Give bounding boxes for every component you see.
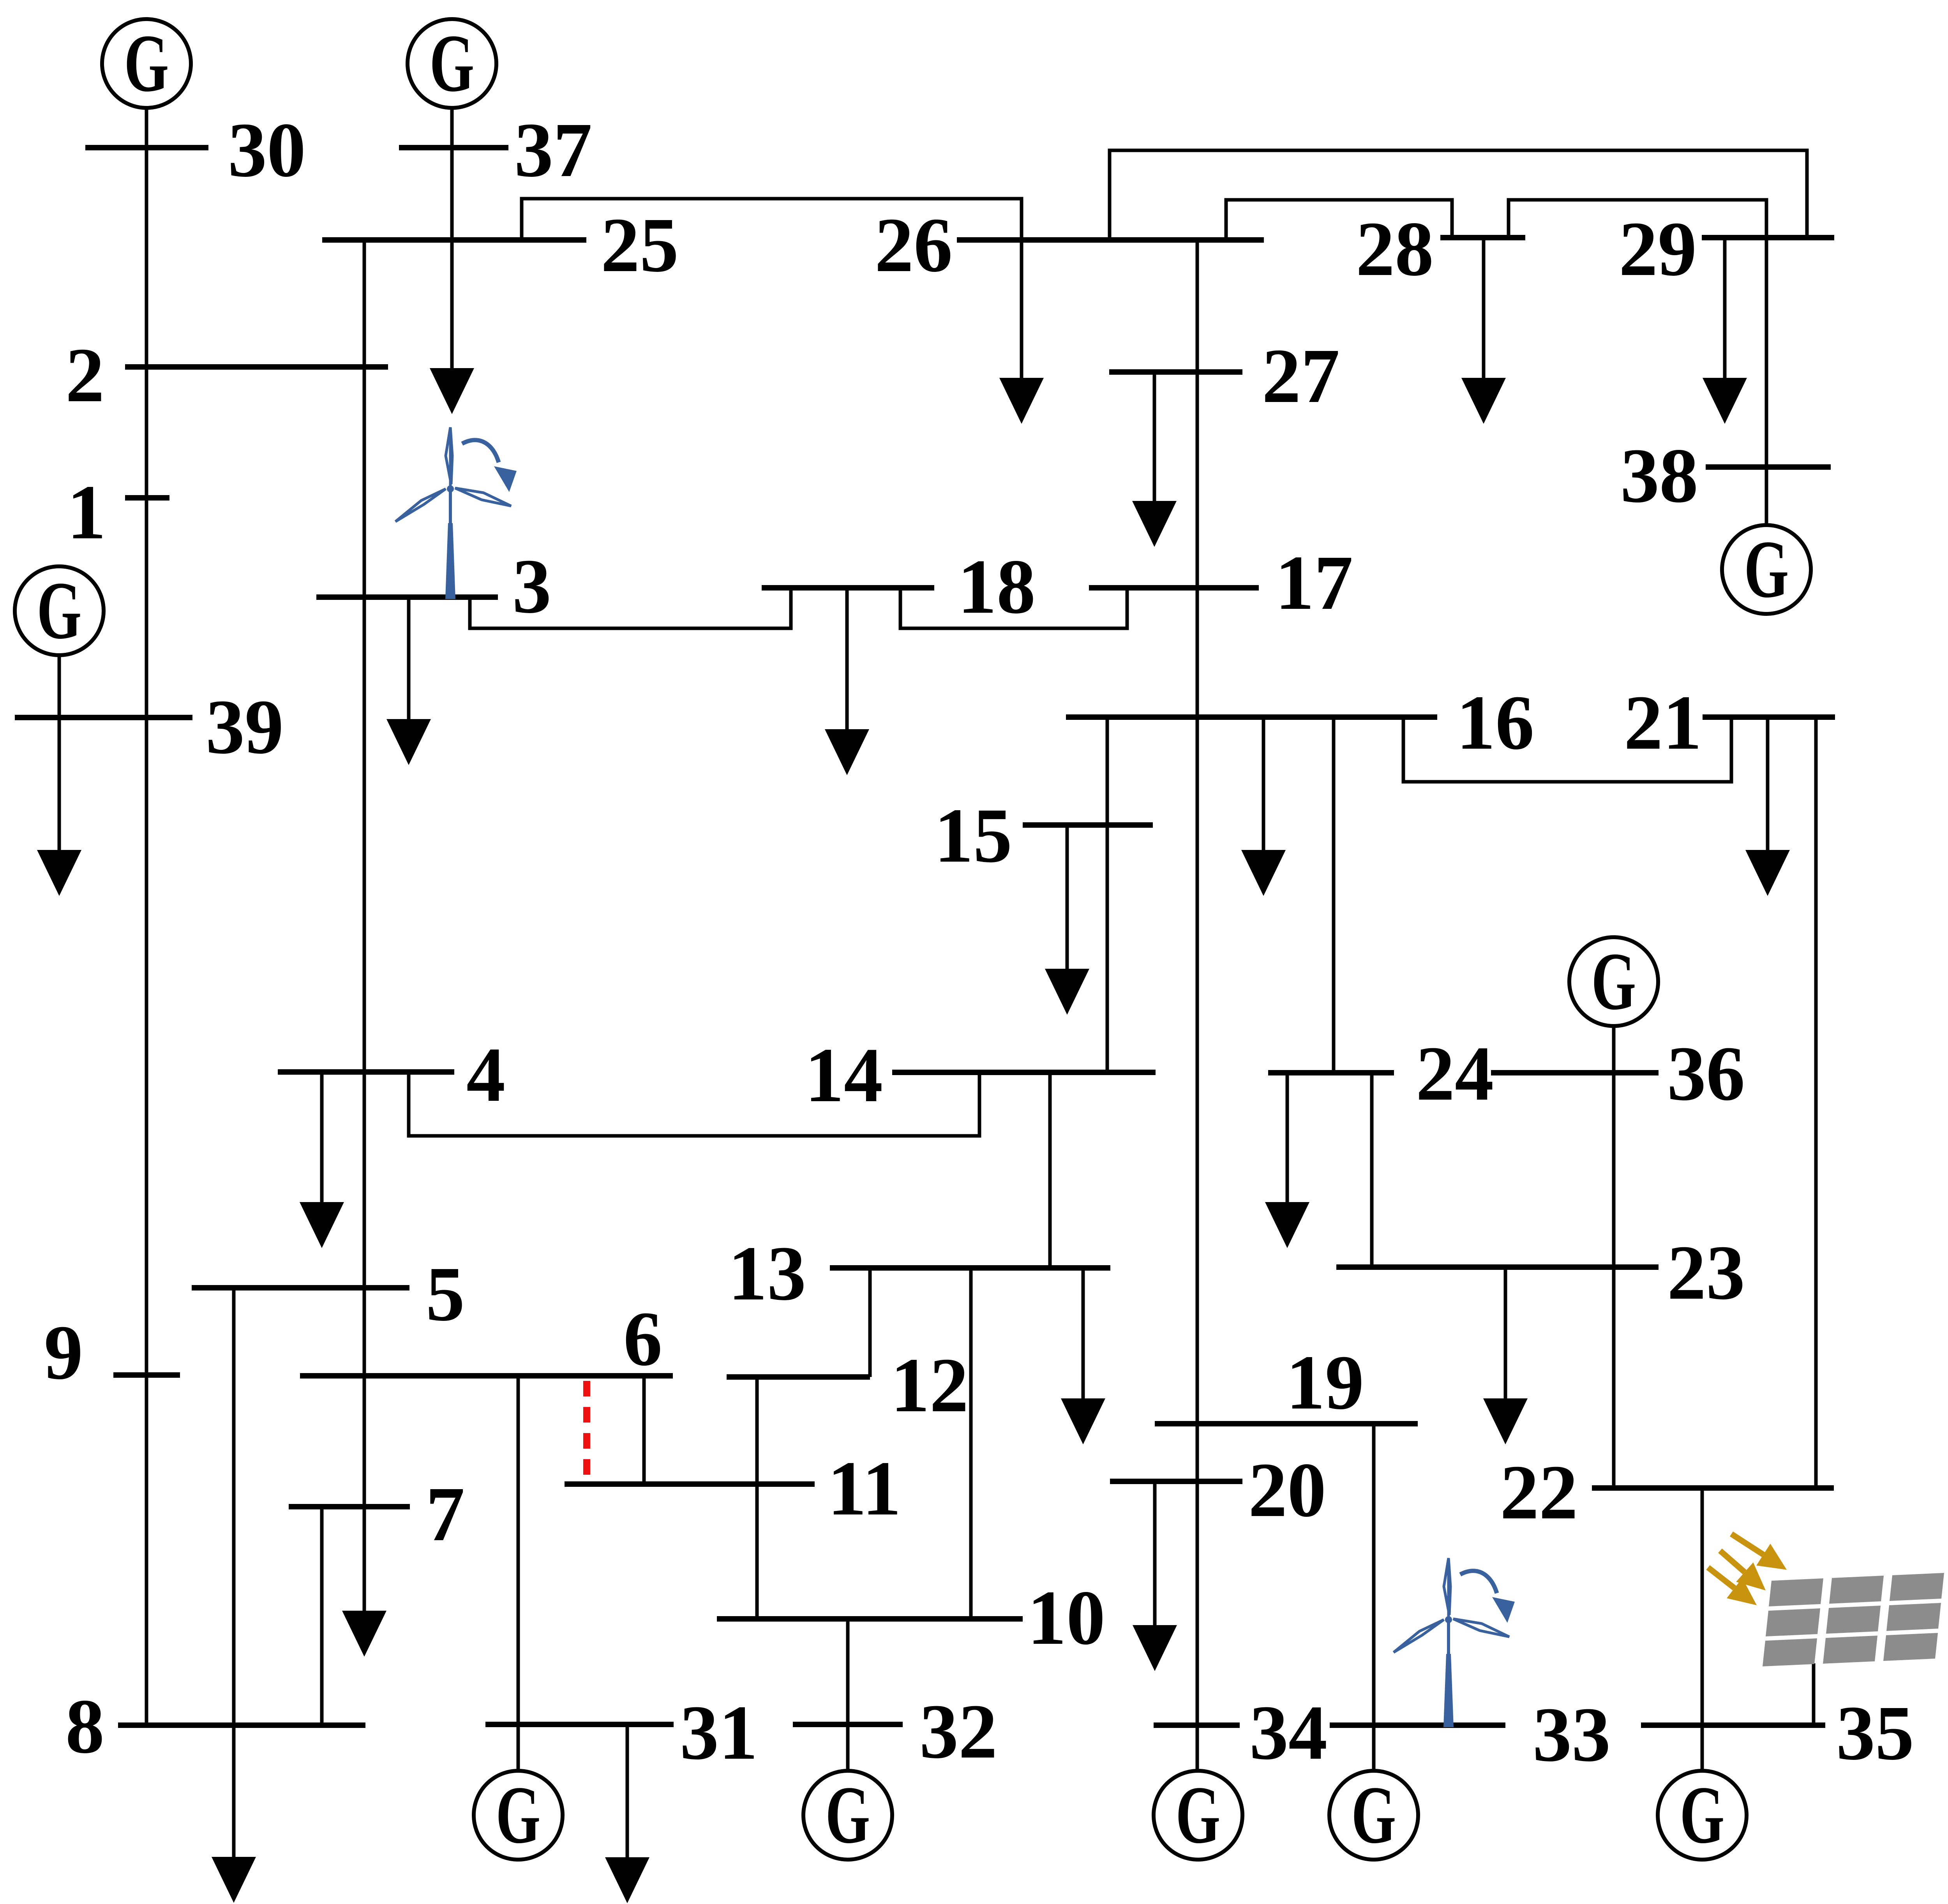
bus 4	[278, 1069, 454, 1075]
bus 24	[1268, 1070, 1394, 1075]
label bus 35	[1836, 1690, 1914, 1776]
label bus 24	[1416, 1031, 1494, 1117]
load arrow bus 23	[1483, 1267, 1528, 1444]
label bus 36	[1667, 1031, 1745, 1117]
svg-text:15: 15	[934, 793, 1012, 879]
wire 19-33-G33	[1372, 1424, 1376, 1771]
line 26-29	[1110, 150, 1807, 240]
label bus 15	[934, 793, 1012, 879]
load arrow bus 4	[300, 1072, 344, 1248]
svg-text:G: G	[826, 1770, 870, 1860]
label bus 28	[1356, 206, 1434, 292]
svg-text:G: G	[430, 18, 475, 109]
svg-text:29: 29	[1619, 206, 1697, 292]
svg-text:G: G	[1176, 1770, 1221, 1860]
line 18-17	[900, 588, 1127, 628]
bus 14	[892, 1070, 1156, 1075]
svg-text:17: 17	[1275, 540, 1353, 626]
svg-text:28: 28	[1356, 206, 1434, 292]
wire trunk 26-27-17-16-19-20-34-G34	[1196, 240, 1199, 1771]
svg-text:G: G	[1680, 1770, 1725, 1860]
svg-text:20: 20	[1248, 1447, 1326, 1533]
load arrow bus 26	[999, 199, 1044, 424]
label bus 33	[1533, 1692, 1611, 1778]
wire 29-38-G38	[1765, 238, 1768, 525]
generator G37	[408, 18, 496, 109]
svg-text:13: 13	[728, 1231, 806, 1317]
line 4-14	[409, 1072, 979, 1136]
load arrow bus 39	[37, 718, 81, 896]
svg-text:1: 1	[67, 469, 106, 555]
red dashed line 6-11	[583, 1381, 590, 1478]
svg-text:7: 7	[426, 1471, 465, 1557]
label bus 37	[514, 107, 592, 193]
svg-text:G: G	[37, 565, 82, 656]
label bus 38	[1620, 433, 1698, 519]
bus 17	[1089, 585, 1259, 591]
wire G39 to 39	[58, 655, 61, 718]
load arrow bus 28	[1461, 238, 1506, 424]
bus 6	[300, 1373, 673, 1379]
bus 11	[565, 1481, 815, 1487]
load arrow bus 13	[1061, 1268, 1105, 1444]
label bus 2	[65, 332, 104, 418]
bus 32	[793, 1722, 903, 1727]
bus 13	[830, 1265, 1110, 1271]
label bus 11	[828, 1446, 901, 1532]
svg-text:32: 32	[919, 1689, 997, 1775]
svg-text:25: 25	[601, 202, 679, 288]
label bus 21	[1624, 680, 1702, 766]
load arrow bus 31	[605, 1724, 649, 1903]
svg-text:11: 11	[828, 1446, 901, 1532]
bus 27	[1109, 369, 1242, 375]
wire 13-10	[969, 1268, 973, 1619]
bus 39	[15, 715, 192, 720]
wire 21-22	[1814, 717, 1818, 1488]
label bus 29	[1619, 206, 1697, 292]
label bus 18	[958, 544, 1036, 630]
label bus 27	[1262, 333, 1340, 419]
wire 10-32-G32	[846, 1619, 850, 1771]
bus 20	[1110, 1479, 1242, 1484]
label bus 4	[466, 1032, 505, 1118]
bus 15	[1023, 822, 1153, 828]
bus 2	[125, 364, 388, 370]
wire 13-12	[868, 1268, 872, 1377]
bus 8	[118, 1722, 365, 1728]
bus 37	[399, 145, 508, 150]
bus 21	[1703, 714, 1835, 720]
svg-text:G: G	[124, 18, 169, 109]
wire 24-23	[1370, 1073, 1374, 1267]
load arrow bus 20	[1133, 1481, 1177, 1671]
svg-text:G: G	[1592, 936, 1636, 1027]
bus 34	[1154, 1722, 1240, 1728]
load arrow bus 3	[386, 597, 431, 765]
label bus 8	[65, 1684, 104, 1770]
svg-text:21: 21	[1624, 680, 1702, 766]
generator G31	[474, 1770, 563, 1860]
wire 14-13	[1048, 1072, 1052, 1268]
label bus 19	[1286, 1340, 1364, 1426]
svg-text:30: 30	[228, 107, 306, 193]
label bus 13	[728, 1231, 806, 1317]
bus 10	[717, 1616, 1023, 1622]
svg-text:12: 12	[891, 1342, 969, 1428]
generator G36	[1569, 936, 1658, 1027]
wire 25-2-3-4-5-6-7 trunk	[363, 240, 366, 1609]
svg-text:33: 33	[1533, 1692, 1611, 1778]
svg-text:2: 2	[65, 332, 104, 418]
svg-text:35: 35	[1836, 1690, 1914, 1776]
bus 30	[85, 145, 208, 150]
label bus 14	[805, 1032, 883, 1118]
wire G36-36-23-22	[1612, 1026, 1616, 1488]
load arrow bus 21	[1745, 717, 1790, 896]
generator G32	[803, 1770, 892, 1860]
bus 26	[957, 237, 1264, 243]
label bus 10	[1027, 1575, 1105, 1661]
load arrow bus 24	[1265, 1073, 1309, 1248]
label bus 31	[680, 1690, 758, 1776]
label bus 26	[875, 202, 953, 288]
label bus 16	[1456, 680, 1534, 766]
bus 22	[1592, 1485, 1834, 1491]
line 26-28	[1226, 200, 1452, 240]
svg-text:38: 38	[1620, 433, 1698, 519]
label bus 9	[44, 1310, 83, 1396]
svg-text:G: G	[496, 1770, 541, 1860]
bus 19	[1155, 1421, 1418, 1426]
load arrow bus 27	[1132, 372, 1177, 547]
label bus 30	[228, 107, 306, 193]
label bus 7	[426, 1471, 465, 1557]
wire 22-35-G35	[1701, 1488, 1704, 1771]
svg-text:26: 26	[875, 202, 953, 288]
svg-text:10: 10	[1027, 1575, 1105, 1661]
svg-text:24: 24	[1416, 1031, 1494, 1117]
solar panel at bus 35	[1763, 1573, 1944, 1725]
label bus 6	[623, 1296, 662, 1382]
bus 28	[1440, 235, 1525, 240]
svg-text:31: 31	[680, 1690, 758, 1776]
wire trunk G30-30-2-1-39-9-8	[145, 108, 148, 1725]
svg-text:G: G	[1352, 1770, 1396, 1860]
label bus 39	[206, 684, 284, 770]
line 16-21	[1403, 717, 1731, 782]
load arrow bus 7	[342, 1597, 386, 1657]
bus 38	[1706, 464, 1831, 470]
label bus 22	[1500, 1449, 1578, 1536]
svg-text:9: 9	[44, 1310, 83, 1396]
line 28-29	[1509, 200, 1766, 238]
label bus 1	[67, 469, 106, 555]
svg-text:23: 23	[1667, 1230, 1745, 1316]
wind turbine at bus 3	[395, 427, 517, 599]
svg-text:34: 34	[1249, 1690, 1327, 1776]
bus 9	[113, 1372, 180, 1378]
load arrow bus 15	[1045, 825, 1089, 1015]
svg-text:19: 19	[1286, 1340, 1364, 1426]
sun rays arrows at solar panel	[1708, 1534, 1787, 1605]
bus 18	[762, 585, 934, 591]
svg-text:36: 36	[1667, 1031, 1745, 1117]
line 3-18	[470, 588, 791, 628]
label bus 5	[426, 1251, 465, 1337]
label bus 23	[1667, 1230, 1745, 1316]
bus 35	[1641, 1722, 1825, 1728]
svg-text:37: 37	[514, 107, 592, 193]
label bus 34	[1249, 1690, 1327, 1776]
wire 7-8	[320, 1507, 324, 1725]
load arrow bus 25	[430, 240, 474, 414]
generator G33	[1329, 1770, 1418, 1860]
bus 31	[485, 1722, 674, 1727]
svg-text:3: 3	[512, 543, 551, 629]
bus 5	[192, 1285, 409, 1290]
svg-text:39: 39	[206, 684, 284, 770]
bus 23	[1336, 1264, 1659, 1270]
bus 33	[1330, 1722, 1505, 1728]
bus 16	[1066, 714, 1437, 720]
label bus 32	[919, 1689, 997, 1775]
line 25-26	[522, 199, 1022, 240]
bus 12	[727, 1374, 870, 1380]
svg-text:5: 5	[426, 1251, 465, 1337]
svg-text:4: 4	[466, 1032, 505, 1118]
svg-text:16: 16	[1456, 680, 1534, 766]
wire 16-15-14	[1106, 717, 1109, 1072]
svg-text:27: 27	[1262, 333, 1340, 419]
svg-text:22: 22	[1500, 1449, 1578, 1536]
wire 6-31-G31	[517, 1376, 520, 1771]
svg-text:18: 18	[958, 544, 1036, 630]
label bus 25	[601, 202, 679, 288]
bus 36	[1491, 1070, 1659, 1075]
generator G38	[1722, 524, 1811, 615]
svg-text:6: 6	[623, 1296, 662, 1382]
generator G30	[102, 18, 191, 109]
wire 5-8 and load arrow bus 8	[212, 1288, 256, 1903]
bus 1	[125, 495, 169, 501]
generator G35	[1658, 1770, 1747, 1860]
wire 12-11-10	[755, 1377, 759, 1619]
svg-text:8: 8	[65, 1684, 104, 1770]
label bus 20	[1248, 1447, 1326, 1533]
wire 16-24	[1332, 717, 1336, 1073]
bus 7	[289, 1504, 410, 1509]
generator G34	[1154, 1770, 1242, 1860]
bus 25	[322, 237, 586, 243]
load arrow bus 29	[1703, 238, 1747, 424]
wind turbine at bus 33	[1394, 1558, 1515, 1727]
wire 6-11	[642, 1376, 646, 1484]
bus 29	[1702, 235, 1834, 240]
generator G39	[15, 565, 104, 656]
label bus 12	[891, 1342, 969, 1428]
label bus 3	[512, 543, 551, 629]
load arrow bus 18	[825, 588, 869, 775]
bus 3	[316, 594, 498, 600]
wire G37 to 37 to 25	[450, 108, 454, 240]
svg-text:14: 14	[805, 1032, 883, 1118]
label bus 17	[1275, 540, 1353, 626]
load arrow bus 16	[1241, 717, 1286, 896]
svg-text:G: G	[1744, 524, 1789, 615]
